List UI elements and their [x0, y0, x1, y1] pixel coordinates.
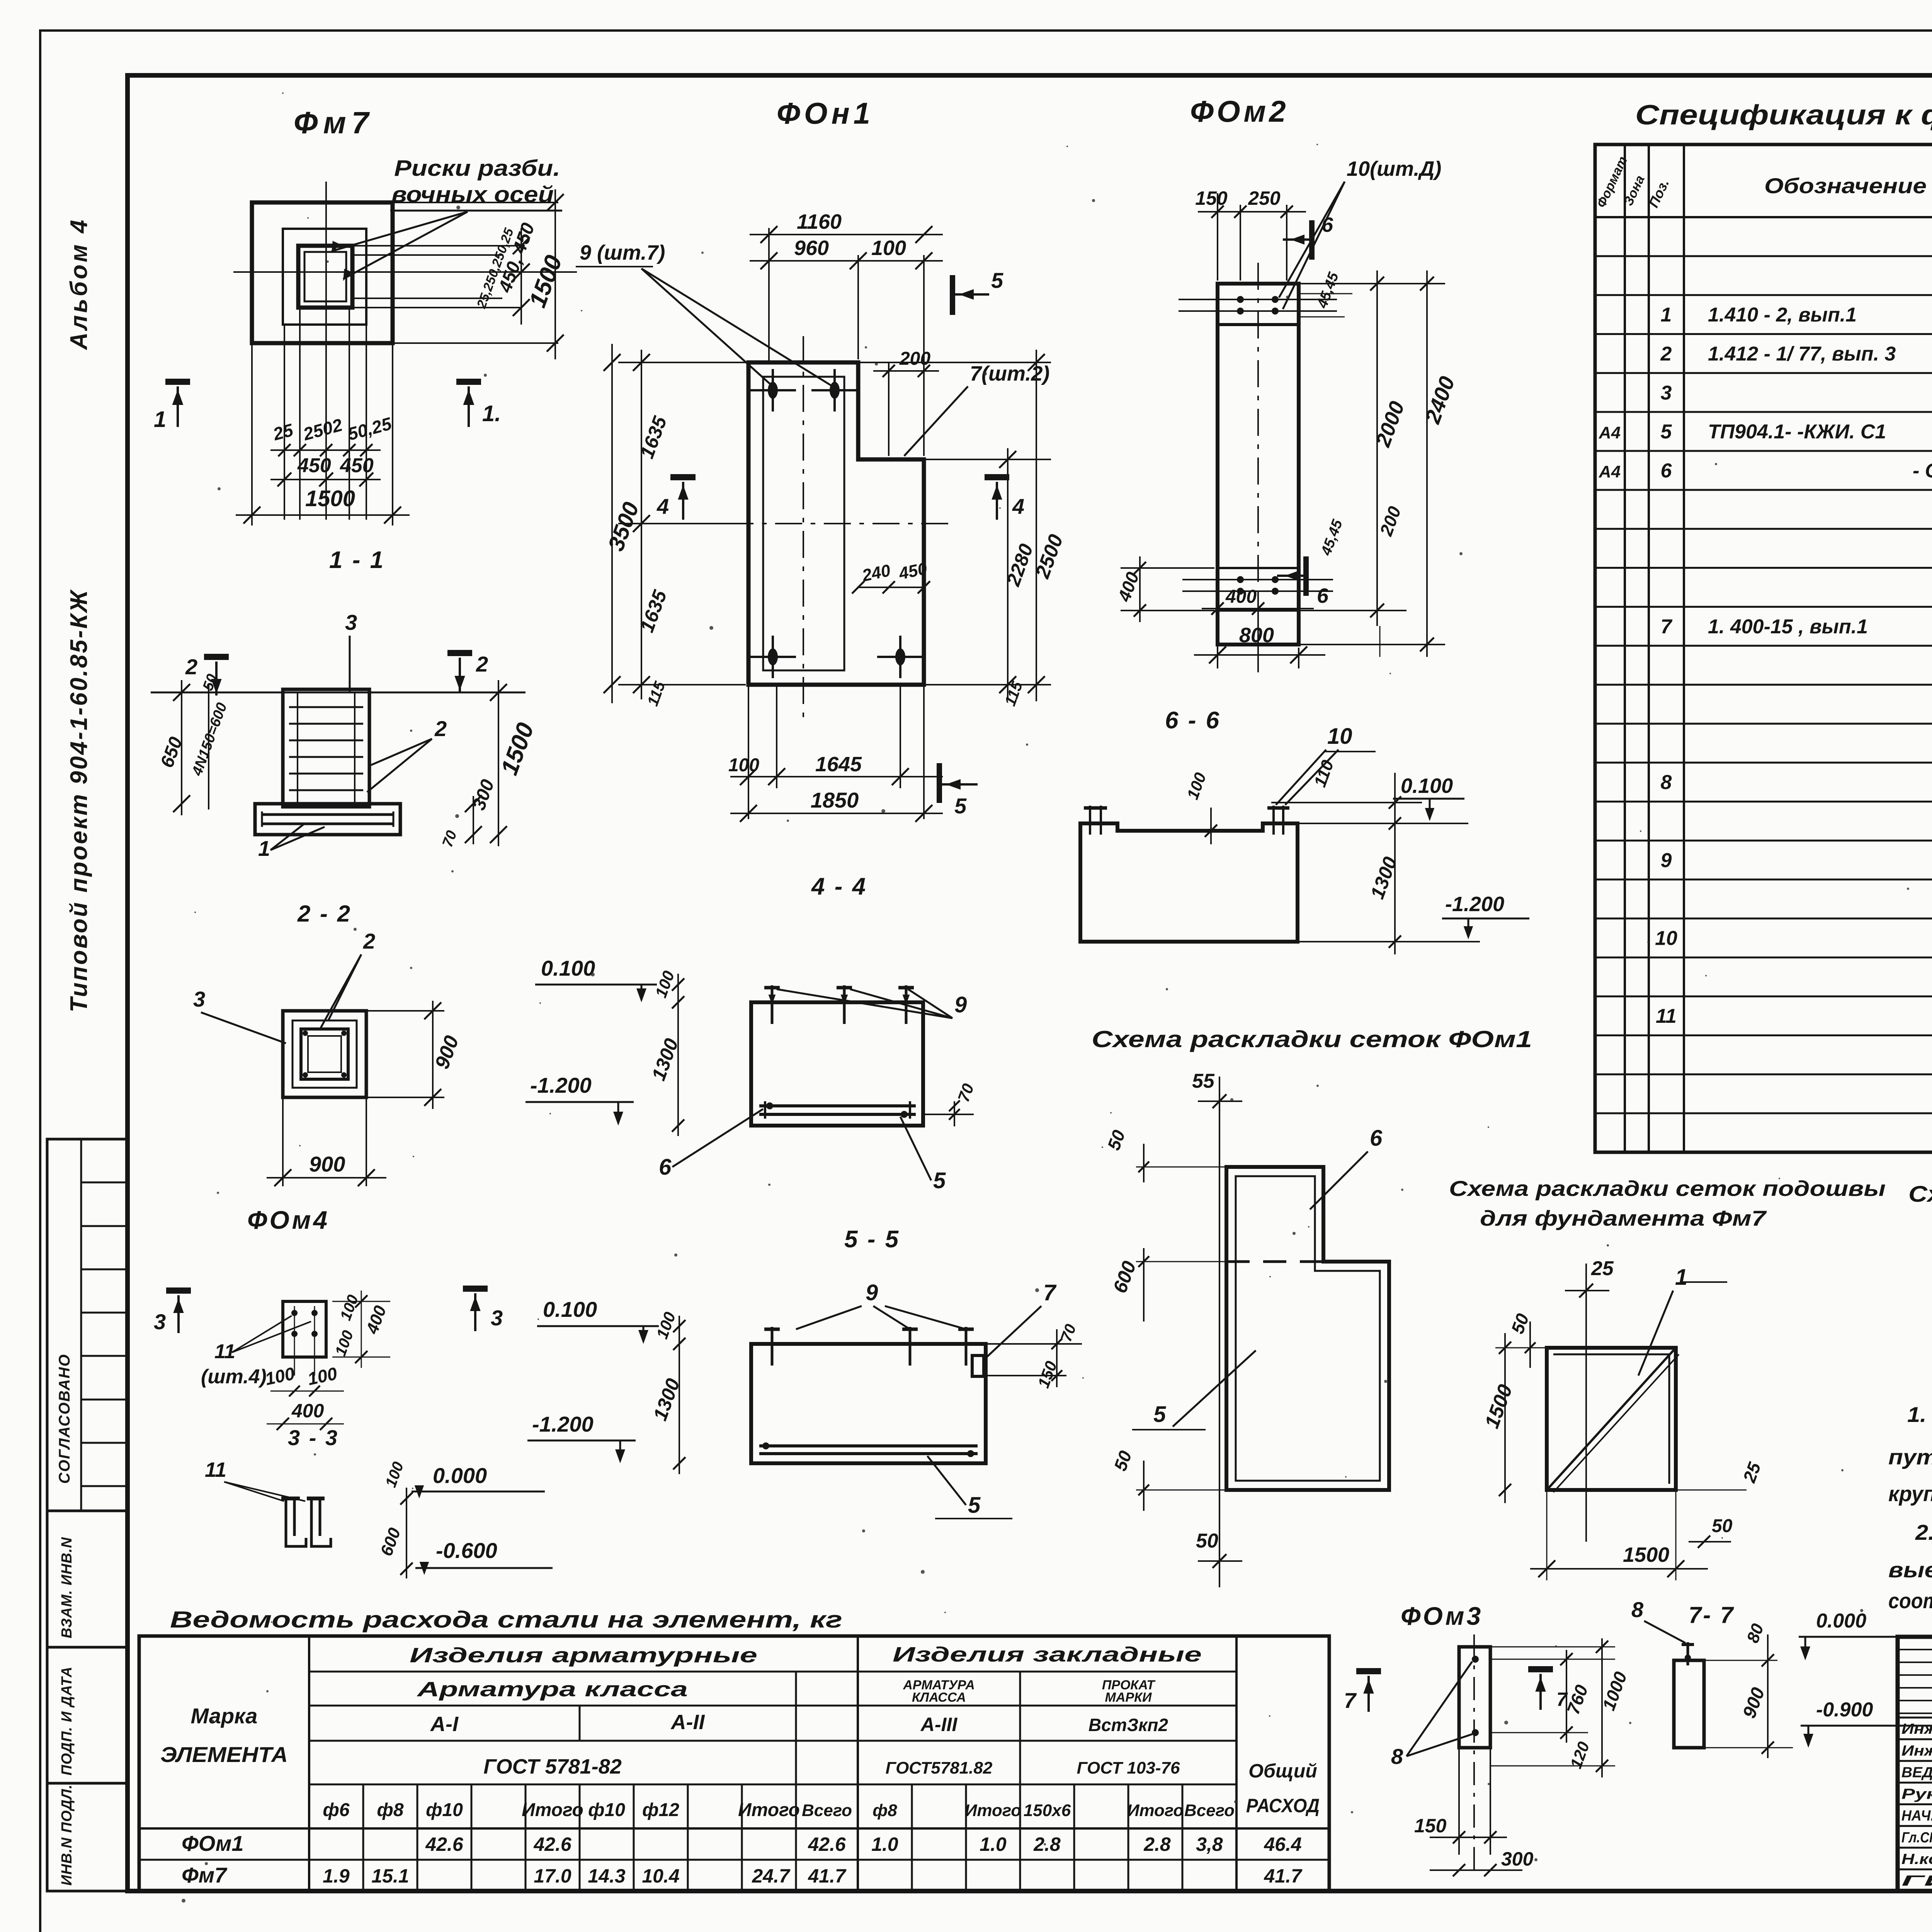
- svg-text:3 - 3: 3 - 3: [288, 1425, 339, 1450]
- svg-text:Итого: Итого: [1127, 1801, 1184, 1820]
- mesh layout Fm7 square: [1547, 1348, 1676, 1490]
- svg-text:Итого: Итого: [738, 1800, 800, 1820]
- svg-text:41.7: 41.7: [808, 1865, 847, 1887]
- svg-text:А-II: А-II: [670, 1711, 705, 1734]
- svg-text:ФОм1: ФОм1: [182, 1831, 244, 1855]
- section 5-5 anchor bolts: [771, 1327, 774, 1366]
- svg-text:1000: 1000: [1599, 1669, 1631, 1713]
- svg-text:1.9: 1.9: [323, 1865, 350, 1887]
- FOm2 bottom dims 400 800: [1217, 603, 1218, 668]
- section 2-2 corner dots: [303, 1031, 308, 1036]
- svg-text:крупностью 40-60мм.: крупностью 40-60мм.: [1888, 1481, 1932, 1506]
- FOm3 dims right 760 1000 120: [1490, 1659, 1615, 1660]
- FOm3 section mark 7 right: [1528, 1666, 1553, 1672]
- svg-text:100: 100: [306, 1363, 339, 1389]
- section 4-4 body: [751, 1002, 923, 1126]
- FOm3 section mark 7 left: [1356, 1668, 1381, 1674]
- svg-text:6: 6: [659, 1155, 672, 1180]
- svg-text:600: 600: [377, 1525, 404, 1558]
- svg-text:46.4: 46.4: [1264, 1833, 1301, 1855]
- svg-text:3: 3: [345, 610, 357, 634]
- svg-text:200: 200: [1376, 503, 1405, 539]
- svg-text:1.: 1.: [482, 401, 501, 426]
- svg-text:Арматура класса: Арматура класса: [416, 1678, 688, 1701]
- FOn1 bolts: [750, 389, 796, 391]
- svg-text:-0.600: -0.600: [436, 1538, 497, 1563]
- title block signature rows: [1898, 1717, 1932, 1719]
- mesh layout Fm7 diagonal: [1547, 1348, 1676, 1490]
- svg-text:путем втрамбования в гр: путем втрамбования в грунт щебня или гра…: [1888, 1445, 1932, 1469]
- svg-text:10(шт.Д): 10(шт.Д): [1347, 157, 1441, 180]
- svg-text:1.0: 1.0: [980, 1833, 1007, 1855]
- svg-text:Марка: Марка: [191, 1704, 258, 1728]
- svg-text:50,25: 50,25: [345, 413, 394, 444]
- section 2-2 dim 900 right: [432, 1001, 434, 1109]
- svg-text:250: 250: [1248, 187, 1281, 209]
- svg-text:1 - 1: 1 - 1: [329, 547, 385, 573]
- mesh layout FOm1 dashed line: [1226, 1260, 1323, 1263]
- svg-text:4 - 4: 4 - 4: [811, 873, 867, 900]
- svg-text:50: 50: [1196, 1530, 1218, 1552]
- FOm3 column body: [1459, 1647, 1490, 1748]
- section 1-1 mark 2 left: [204, 654, 229, 660]
- svg-text:900: 900: [431, 1033, 463, 1072]
- section 4-4 bottom mesh: [759, 1104, 916, 1107]
- svg-text:0.100: 0.100: [541, 956, 595, 980]
- svg-text:4: 4: [1012, 494, 1024, 519]
- svg-text:80: 80: [1743, 1621, 1767, 1645]
- anchor detail dims 100 600: [406, 1488, 407, 1578]
- svg-text:10.4: 10.4: [642, 1865, 679, 1887]
- svg-text:400: 400: [362, 1303, 390, 1337]
- svg-text:9: 9: [954, 992, 967, 1017]
- svg-text:450: 450: [340, 454, 374, 477]
- svg-text:2.8: 2.8: [1143, 1833, 1171, 1855]
- svg-text:1645: 1645: [815, 753, 862, 776]
- section 1-1 right dims 1500 300 70: [498, 680, 499, 846]
- FOn1 section mark 4 right: [985, 474, 1009, 480]
- Fm7 bottom extension lines: [284, 325, 285, 520]
- svg-text:Фм7: Фм7: [182, 1863, 228, 1887]
- svg-text:5: 5: [968, 1493, 981, 1518]
- section 4-4 anchor bolts: [771, 985, 774, 1024]
- svg-text:0.000: 0.000: [1816, 1610, 1866, 1632]
- svg-text:6: 6: [1661, 460, 1672, 482]
- svg-text:5: 5: [991, 268, 1003, 293]
- section 5-5 dims 100 1300: [679, 1316, 680, 1474]
- svg-text:Схема нормативных нагрузо: Схема нормативных нагрузок: [1908, 1182, 1932, 1207]
- svg-text:3,8: 3,8: [1196, 1833, 1223, 1855]
- svg-text:25: 25: [1739, 1459, 1765, 1485]
- svg-text:Итого: Итого: [522, 1800, 583, 1820]
- FOm4 section mark 3 left: [166, 1287, 191, 1294]
- svg-text:ФОн1: ФОн1: [777, 96, 874, 130]
- anchor detail U-bolts: [286, 1498, 306, 1546]
- svg-text:3: 3: [1661, 382, 1672, 404]
- Fm7 right extension lines: [352, 245, 521, 247]
- svg-text:6: 6: [1317, 584, 1329, 607]
- svg-text:2: 2: [476, 652, 488, 676]
- svg-text:100: 100: [263, 1363, 296, 1389]
- svg-text:100: 100: [871, 236, 906, 260]
- FOn1 dim 200 right part: [888, 363, 889, 456]
- svg-text:900: 900: [309, 1152, 345, 1176]
- svg-text:СОГЛАСОВАНО: СОГЛАСОВАНО: [56, 1354, 73, 1484]
- FOn1 top dim 1160: [768, 228, 770, 362]
- svg-text:4: 4: [656, 494, 669, 519]
- svg-text:2502: 2502: [301, 415, 345, 444]
- svg-text:А-III: А-III: [920, 1714, 958, 1735]
- section 7-7 dims 80 900: [1704, 1660, 1777, 1661]
- svg-text:ВЕД.ИНЖ.: ВЕД.ИНЖ.: [1901, 1764, 1932, 1781]
- svg-text:70: 70: [439, 828, 460, 849]
- FOm4 plan small square with bolts: [283, 1301, 326, 1357]
- svg-text:5: 5: [933, 1168, 946, 1193]
- svg-text:А-I: А-I: [430, 1713, 459, 1736]
- mesh layout FOm1 outline: [1226, 1167, 1389, 1490]
- margin box podp i data: [47, 1647, 128, 1783]
- svg-text:1.410 - 2, вып.1: 1.410 - 2, вып.1: [1708, 304, 1857, 326]
- svg-text:Итого: Итого: [965, 1801, 1021, 1820]
- svg-text:Схема раскладки сеток под: Схема раскладки сеток подошвы: [1449, 1176, 1886, 1201]
- svg-text:400: 400: [1225, 587, 1257, 607]
- margin box vzam inv: [47, 1511, 128, 1647]
- svg-text:1300: 1300: [1366, 854, 1401, 902]
- svg-text:-1.200: -1.200: [530, 1073, 592, 1097]
- svg-text:Общий: Общий: [1248, 1760, 1317, 1782]
- svg-text:Рук. гр.: Рук. гр.: [1901, 1786, 1932, 1803]
- svg-text:1300: 1300: [648, 1036, 683, 1083]
- svg-text:5: 5: [1153, 1402, 1166, 1427]
- svg-text:-0.900: -0.900: [1816, 1699, 1873, 1721]
- svg-text:ф10: ф10: [588, 1800, 625, 1820]
- spec table frame: [1595, 145, 1932, 1152]
- Fm7 right dim 1500: [554, 189, 556, 359]
- svg-text:- С1: - С1: [1913, 460, 1932, 482]
- FOn1 section mark 4 left: [670, 474, 696, 480]
- svg-text:Инженер: Инженер: [1901, 1721, 1932, 1737]
- svg-text:Гл.СПЕЦ.ТО: Гл.СПЕЦ.ТО: [1901, 1830, 1932, 1846]
- FOn1 section mark 5 top: [950, 275, 955, 315]
- svg-text:для фундамента Фм7: для фундамента Фм7: [1480, 1206, 1767, 1230]
- svg-text:5: 5: [1661, 421, 1672, 443]
- svg-text:45,45: 45,45: [1314, 270, 1342, 311]
- svg-text:вые фундаменты на эпоксидн: вые фундаменты на эпоксидном клею в: [1888, 1558, 1932, 1582]
- svg-text:7: 7: [1344, 1688, 1357, 1713]
- section 1-1 footing: [255, 804, 400, 835]
- svg-text:2 - 2: 2 - 2: [297, 901, 352, 927]
- svg-text:1500: 1500: [1481, 1381, 1517, 1431]
- svg-text:9: 9: [866, 1280, 878, 1305]
- FOn1 plan outline: [748, 362, 924, 685]
- svg-text:42.6: 42.6: [533, 1833, 572, 1855]
- title block frame: [1898, 1637, 1932, 1891]
- svg-text:Ведомость расхода стали: Ведомость расхода стали на элемент, кг: [170, 1607, 842, 1633]
- svg-text:1. 400-15 , вып.1: 1. 400-15 , вып.1: [1708, 616, 1868, 638]
- FOn1 bottom dims 100 1645 1850: [748, 685, 749, 819]
- svg-text:РАСХОД: РАСХОД: [1246, 1795, 1320, 1816]
- svg-text:Обозначение: Обозначение: [1764, 173, 1927, 198]
- svg-text:ПОДП. И ДАТА: ПОДП. И ДАТА: [59, 1667, 75, 1776]
- svg-text:ГОСТ 5781-82: ГОСТ 5781-82: [483, 1755, 622, 1778]
- svg-text:8: 8: [1661, 771, 1672, 794]
- FOm3 bolt dots: [1472, 1656, 1479, 1663]
- section 6-6 bottom extension: [1298, 941, 1480, 942]
- steel table vertical lines: [308, 1636, 310, 1891]
- svg-text:11: 11: [205, 1458, 226, 1481]
- section 1-1 column: [283, 689, 369, 807]
- section 1-1 mark 2 right: [447, 650, 472, 656]
- svg-text:Фм7: Фм7: [294, 105, 374, 140]
- Fm7 plan middle outline: [283, 229, 366, 325]
- svg-text:ф10: ф10: [426, 1800, 463, 1820]
- svg-text:100: 100: [337, 1293, 362, 1323]
- svg-text:1: 1: [1675, 1265, 1687, 1290]
- svg-text:150х6: 150х6: [1024, 1801, 1071, 1820]
- Fm7 plan anchor square: [298, 246, 352, 308]
- Fm7 right dim 450 450: [520, 228, 522, 325]
- svg-text:150: 150: [1195, 187, 1228, 209]
- svg-text:600: 600: [1109, 1258, 1140, 1296]
- svg-text:70: 70: [954, 1081, 977, 1104]
- svg-text:2. Болты поз. 9,10 устанавл: 2. Болты поз. 9,10 устанавливать в гото-: [1915, 1520, 1932, 1544]
- svg-text:Инженер: Инженер: [1901, 1743, 1932, 1759]
- svg-text:ФОм2: ФОм2: [1190, 94, 1289, 128]
- FOm2 top bolts and lines: [1179, 299, 1337, 300]
- svg-text:1. Подготовку основания: 1. Подготовку основания под фундаменты в…: [1907, 1402, 1932, 1427]
- svg-text:9 (шт.7): 9 (шт.7): [580, 241, 665, 264]
- svg-text:25: 25: [270, 420, 296, 444]
- svg-text:Изделия закладные: Изделия закладные: [893, 1643, 1202, 1666]
- svg-text:1500: 1500: [305, 486, 355, 511]
- svg-text:ВстЗкп2: ВстЗкп2: [1088, 1715, 1168, 1735]
- FOn1 top dim 960 100: [750, 260, 943, 262]
- svg-text:ТП904.1- -КЖИ. С1: ТП904.1- -КЖИ. С1: [1708, 421, 1886, 443]
- svg-text:Схема раскладки сеток: Схема раскладки сеток ФОм1: [1092, 1026, 1532, 1052]
- FOm2 plan outline: [1218, 284, 1299, 645]
- svg-text:11: 11: [1656, 1005, 1677, 1027]
- svg-text:Риски разби.: Риски разби.: [394, 156, 560, 181]
- svg-text:1500: 1500: [1623, 1543, 1669, 1566]
- svg-text:7: 7: [1043, 1280, 1057, 1305]
- svg-text:вочных осей: вочных осей: [391, 182, 554, 207]
- FOm2 axis: [1257, 263, 1259, 672]
- svg-text:Всего: Всего: [802, 1801, 852, 1820]
- svg-text:5 - 5: 5 - 5: [844, 1226, 900, 1253]
- svg-text:41.7: 41.7: [1264, 1865, 1303, 1887]
- svg-text:(шт.4): (шт.4): [201, 1366, 267, 1388]
- svg-text:ГИП: ГИП: [1901, 1873, 1932, 1889]
- FOn1 right dims 2280 2500 115: [924, 459, 1051, 460]
- section 1-1 ground line: [151, 692, 526, 694]
- svg-text:400: 400: [291, 1400, 324, 1422]
- svg-text:КЛАССА: КЛАССА: [912, 1690, 966, 1705]
- svg-text:ИНВ.N ПОДЛ.: ИНВ.N ПОДЛ.: [59, 1784, 75, 1886]
- svg-text:3: 3: [193, 987, 205, 1011]
- steel table frame: [139, 1636, 1329, 1891]
- FOm2 section mark 6 bottom: [1303, 556, 1309, 596]
- svg-text:Спецификация к фундамента: Спецификация к фундаментам ФОм1 - ФОм4, …: [1635, 100, 1932, 131]
- svg-text:ЭЛЕМЕНТА: ЭЛЕМЕНТА: [160, 1742, 288, 1767]
- steel table horizontal lines: [309, 1671, 1236, 1673]
- section 5-5 body: [751, 1344, 986, 1463]
- svg-text:800: 800: [1239, 624, 1274, 647]
- Fm7 plan axes: [325, 182, 327, 444]
- svg-text:3: 3: [154, 1310, 166, 1334]
- svg-text:25: 25: [1591, 1257, 1614, 1280]
- svg-text:17.0: 17.0: [534, 1865, 571, 1887]
- FOm3 dims bottom 150 300: [1430, 1837, 1507, 1838]
- section 2-2 nested squares: [283, 1011, 366, 1097]
- svg-text:7- 7: 7- 7: [1689, 1602, 1735, 1628]
- svg-text:400: 400: [1114, 569, 1143, 604]
- svg-text:ВЗАМ. ИНВ.N: ВЗАМ. ИНВ.N: [59, 1537, 75, 1638]
- svg-text:1.412 - 1/ 77, вып. 3: 1.412 - 1/ 77, вып. 3: [1708, 343, 1896, 365]
- margin box inv n podl: [47, 1783, 128, 1891]
- svg-text:1500: 1500: [496, 719, 539, 779]
- svg-text:-1.200: -1.200: [532, 1412, 594, 1436]
- svg-text:Всего: Всего: [1184, 1801, 1235, 1820]
- section 4-4 dim 70: [923, 1114, 974, 1115]
- svg-text:1: 1: [258, 836, 270, 861]
- svg-text:100: 100: [332, 1328, 357, 1358]
- svg-text:55: 55: [1192, 1070, 1215, 1092]
- svg-text:42.6: 42.6: [425, 1833, 464, 1855]
- svg-text:0.100: 0.100: [543, 1297, 597, 1321]
- svg-text:200: 200: [899, 349, 930, 369]
- svg-text:7(шт.2): 7(шт.2): [970, 362, 1049, 385]
- svg-text:НАЧ.ОСП.1: НАЧ.ОСП.1: [1901, 1808, 1932, 1824]
- FOm2 left dim 400: [1121, 567, 1214, 569]
- svg-text:450: 450: [297, 454, 331, 477]
- svg-text:Альбом 4: Альбом 4: [66, 218, 92, 350]
- svg-text:2.8: 2.8: [1033, 1833, 1061, 1855]
- FOm2 section mark 6 top: [1309, 220, 1315, 260]
- svg-text:240: 240: [860, 561, 892, 585]
- svg-text:МАРКИ: МАРКИ: [1105, 1690, 1152, 1705]
- svg-text:6: 6: [1370, 1126, 1383, 1151]
- FOm2 top dims 150 250: [1217, 193, 1218, 281]
- svg-text:300: 300: [1501, 1848, 1534, 1870]
- FOn1 section mark 5 bottom: [937, 763, 942, 803]
- svg-text:ФОм3: ФОм3: [1401, 1602, 1483, 1630]
- FOn1 left dims 1635 1635 3500 115: [618, 362, 746, 363]
- section 5-5 bottom label 5 line: [935, 1518, 1012, 1519]
- FOm2 bottom bolts and lines: [1182, 579, 1333, 580]
- svg-text:100: 100: [651, 968, 678, 1000]
- svg-text:-1.200: -1.200: [1445, 893, 1504, 916]
- Fm7 plan outer footing outline: [252, 202, 393, 343]
- svg-text:10: 10: [1655, 927, 1677, 950]
- svg-text:1850: 1850: [811, 788, 859, 812]
- svg-text:100: 100: [382, 1459, 407, 1490]
- svg-text:14.3: 14.3: [588, 1865, 626, 1887]
- svg-text:10: 10: [1327, 724, 1352, 749]
- mesh layout Fm7 axis: [1585, 1264, 1587, 1542]
- title block top narrow rows: [1898, 1649, 1932, 1650]
- Fm7 section mark 1 right: [456, 379, 481, 385]
- svg-text:А4: А4: [1599, 423, 1621, 442]
- svg-text:45,45: 45,45: [1318, 517, 1346, 558]
- svg-text:100: 100: [1183, 770, 1209, 802]
- svg-text:1160: 1160: [797, 210, 842, 233]
- FOn1 axes dash-dot: [803, 336, 804, 719]
- svg-text:Н.контр: Н.контр: [1901, 1851, 1932, 1867]
- svg-text:100: 100: [728, 755, 759, 776]
- svg-text:4N150=600: 4N150=600: [189, 701, 230, 778]
- svg-text:2400: 2400: [1420, 373, 1459, 427]
- svg-text:50: 50: [1110, 1448, 1136, 1473]
- svg-text:соответствии с СН471-75.: соответствии с СН471-75.: [1888, 1588, 1932, 1613]
- FOm2 right dims 2000 2400: [1299, 283, 1445, 284]
- svg-text:2: 2: [1660, 343, 1672, 365]
- svg-text:0.100: 0.100: [1401, 774, 1453, 798]
- svg-text:50: 50: [1507, 1311, 1533, 1336]
- svg-text:300: 300: [469, 777, 498, 813]
- svg-text:100: 100: [653, 1310, 679, 1341]
- svg-text:115: 115: [1002, 679, 1026, 708]
- section 7-7 body: [1674, 1660, 1704, 1748]
- svg-text:8: 8: [1631, 1597, 1644, 1622]
- svg-text:ГОСТ 103-76: ГОСТ 103-76: [1077, 1759, 1180, 1777]
- section 4-4 dims 100 1300: [677, 974, 679, 1136]
- svg-text:8: 8: [1391, 1744, 1403, 1769]
- section 5-5 bottom mesh: [759, 1444, 978, 1447]
- margin approval table: [47, 1139, 128, 1511]
- section 6-6 top extension and 110: [1298, 823, 1468, 824]
- svg-text:ГОСТ5781.82: ГОСТ5781.82: [886, 1759, 993, 1777]
- svg-text:А4: А4: [1599, 463, 1621, 481]
- svg-text:ф12: ф12: [642, 1800, 679, 1820]
- svg-text:15.1: 15.1: [371, 1865, 409, 1887]
- svg-text:0.000: 0.000: [433, 1463, 487, 1488]
- svg-text:Изделия арматурные: Изделия арматурные: [410, 1644, 757, 1667]
- svg-text:2: 2: [434, 716, 447, 741]
- svg-text:5: 5: [954, 794, 967, 818]
- section 6-6 bolts: [1089, 806, 1091, 835]
- svg-text:900: 900: [1739, 1685, 1769, 1721]
- Fm7 section mark 1 left: [165, 379, 190, 385]
- svg-text:42.6: 42.6: [808, 1833, 846, 1855]
- svg-text:Типовой проект 904-1-60.85: Типовой проект 904-1-60.85-КЖ: [66, 589, 92, 1013]
- svg-text:6: 6: [1321, 213, 1333, 236]
- svg-text:960: 960: [794, 236, 829, 260]
- section 6-6 body: [1080, 823, 1298, 942]
- svg-text:9: 9: [1661, 849, 1672, 872]
- mesh layout FOm1 axis: [1219, 1077, 1220, 1587]
- section 2-2 dim 900 bottom: [282, 1097, 284, 1186]
- svg-text:2: 2: [185, 655, 197, 679]
- FOn1 inner dim 240 450: [858, 587, 924, 588]
- section 1-1 left dims 650 and 4x150=600 and 50: [181, 680, 182, 815]
- svg-text:1: 1: [154, 407, 166, 432]
- svg-text:1: 1: [1661, 304, 1672, 326]
- svg-text:50: 50: [1104, 1127, 1129, 1153]
- svg-text:1500: 1500: [524, 252, 567, 311]
- FOm2 right dims 45 45 top: [1299, 293, 1352, 294]
- svg-text:ф8: ф8: [377, 1800, 403, 1820]
- svg-text:150: 150: [1414, 1815, 1447, 1837]
- spec table verticals: [1624, 145, 1626, 1152]
- svg-text:1.0: 1.0: [871, 1833, 898, 1855]
- spec table rows: [1595, 255, 1932, 257]
- section 5-5 dims 70 150 right: [986, 1343, 1082, 1345]
- svg-text:50: 50: [1712, 1516, 1733, 1536]
- svg-text:7: 7: [1661, 616, 1673, 638]
- svg-text:3: 3: [491, 1306, 503, 1330]
- svg-text:ф6: ф6: [323, 1800, 349, 1820]
- FOm4 section mark 3 right: [463, 1286, 488, 1292]
